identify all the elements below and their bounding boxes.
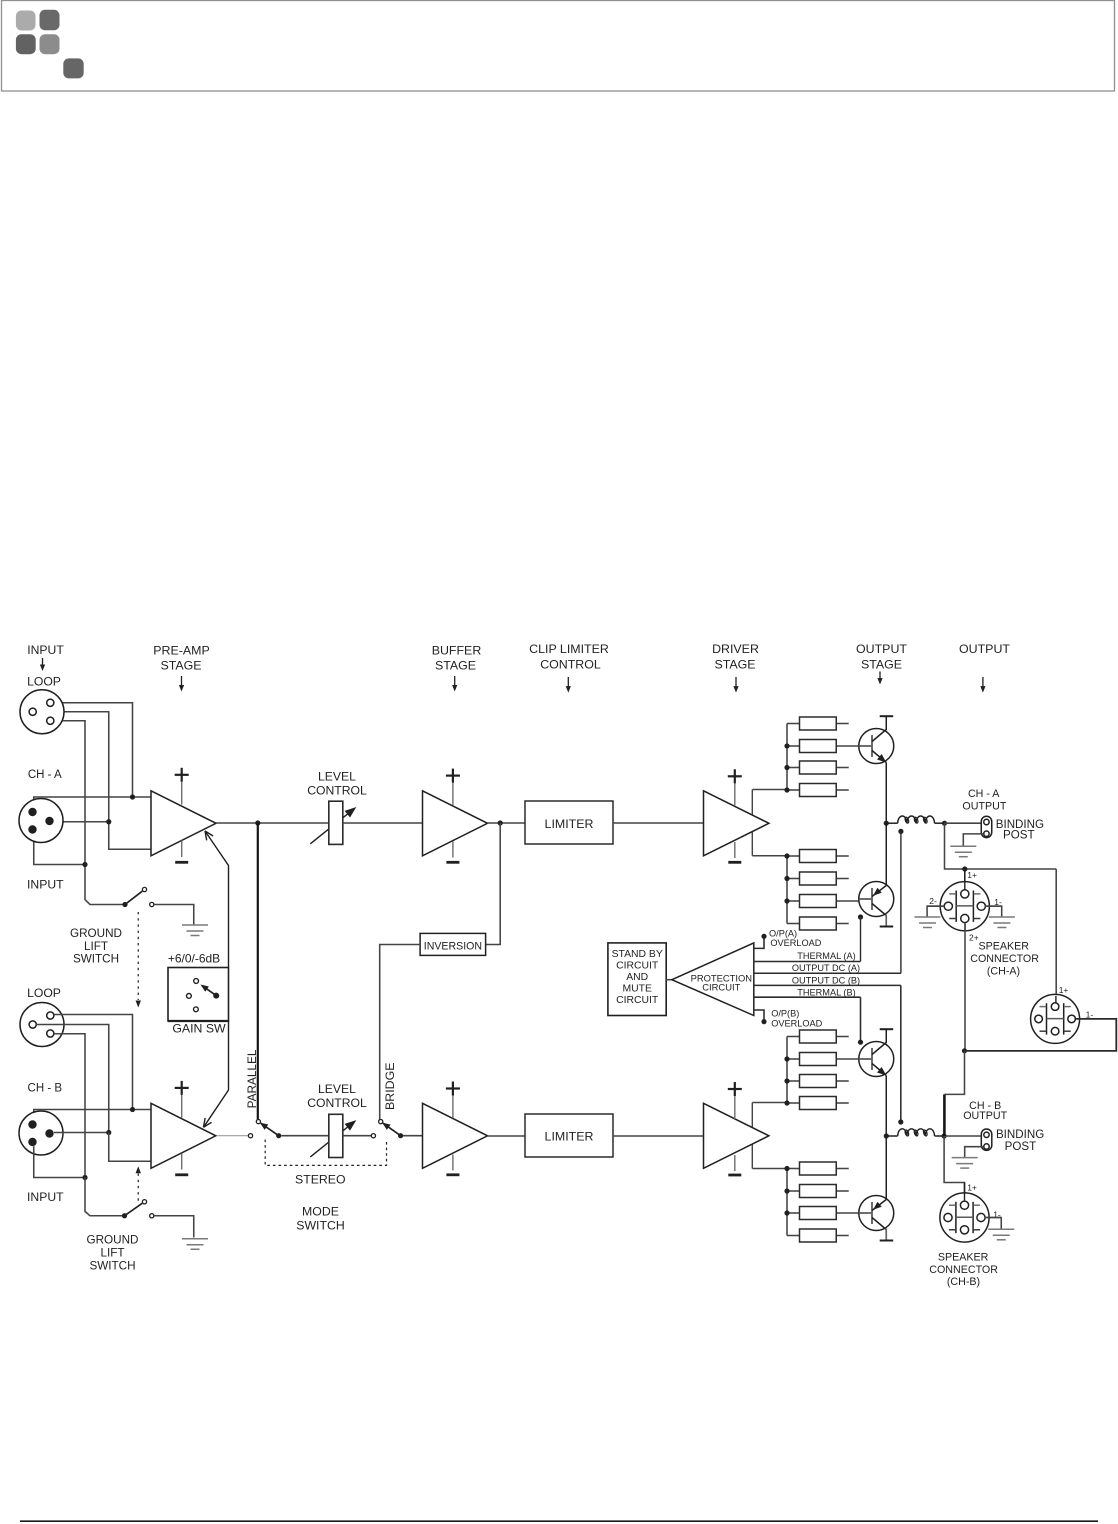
svg-text:BUFFER: BUFFER: [432, 644, 482, 658]
svg-text:OVERLOAD: OVERLOAD: [770, 938, 821, 948]
svg-text:(CH-B): (CH-B): [947, 1276, 980, 1288]
svg-text:BINDING: BINDING: [996, 1128, 1044, 1141]
svg-text:OUTPUT DC (B): OUTPUT DC (B): [792, 975, 860, 985]
svg-text:LEVEL: LEVEL: [318, 770, 356, 784]
svg-text:2-: 2-: [929, 896, 937, 906]
svg-text:CH - A: CH - A: [28, 769, 62, 781]
svg-text:CIRCUIT: CIRCUIT: [702, 982, 740, 993]
svg-text:OUTPUT: OUTPUT: [959, 642, 1010, 656]
svg-text:OUTPUT DC (A): OUTPUT DC (A): [792, 963, 860, 973]
svg-text:CONNECTOR: CONNECTOR: [929, 1264, 998, 1276]
svg-text:OUTPUT: OUTPUT: [962, 800, 1006, 812]
svg-text:CIRCUIT: CIRCUIT: [616, 961, 659, 972]
svg-text:INVERSION: INVERSION: [424, 940, 482, 952]
svg-text:MODE: MODE: [302, 1205, 339, 1219]
svg-text:1+: 1+: [967, 1183, 977, 1193]
svg-text:STAGE: STAGE: [714, 658, 755, 672]
svg-text:CIRCUIT: CIRCUIT: [616, 995, 659, 1006]
svg-text:STAND BY: STAND BY: [612, 949, 663, 960]
svg-text:AND: AND: [626, 972, 648, 983]
svg-text:2+: 2+: [969, 933, 979, 943]
svg-text:LIFT: LIFT: [84, 940, 108, 953]
svg-text:STEREO: STEREO: [295, 1172, 346, 1186]
svg-text:SPEAKER: SPEAKER: [979, 940, 1030, 952]
svg-text:INPUT: INPUT: [27, 643, 64, 657]
svg-text:LOOP: LOOP: [27, 675, 61, 689]
svg-text:INPUT: INPUT: [27, 878, 64, 892]
svg-text:GAIN SW: GAIN SW: [172, 1022, 226, 1036]
svg-text:LIMITER: LIMITER: [545, 817, 594, 831]
svg-text:1+: 1+: [967, 870, 977, 880]
svg-text:STAGE: STAGE: [861, 658, 902, 672]
svg-text:GROUND: GROUND: [70, 927, 122, 940]
svg-text:O/P(A): O/P(A): [769, 929, 797, 939]
svg-text:THERMAL (B): THERMAL (B): [797, 988, 855, 998]
svg-text:SWITCH: SWITCH: [73, 952, 119, 965]
svg-text:DRIVER: DRIVER: [712, 642, 759, 656]
svg-text:MUTE: MUTE: [622, 984, 652, 995]
svg-text:INPUT: INPUT: [27, 1190, 64, 1204]
svg-text:CONNECTOR: CONNECTOR: [970, 953, 1039, 965]
svg-text:POST: POST: [1005, 1140, 1037, 1153]
svg-text:CH - A: CH - A: [968, 788, 1000, 800]
svg-text:THERMAL (A): THERMAL (A): [797, 951, 855, 961]
svg-text:CONTROL: CONTROL: [540, 658, 601, 672]
svg-text:PARALLEL: PARALLEL: [245, 1049, 259, 1108]
svg-text:LIMITER: LIMITER: [545, 1130, 594, 1144]
svg-text:(CH-A): (CH-A): [987, 965, 1020, 977]
svg-text:STAGE: STAGE: [435, 659, 476, 673]
svg-text:CONTROL: CONTROL: [307, 784, 367, 798]
svg-text:LIFT: LIFT: [100, 1247, 124, 1260]
svg-text:CLIP LIMITER: CLIP LIMITER: [529, 642, 609, 656]
svg-text:SWITCH: SWITCH: [296, 1218, 345, 1232]
svg-text:SWITCH: SWITCH: [89, 1260, 135, 1273]
svg-text:OVERLOAD: OVERLOAD: [771, 1019, 822, 1029]
svg-text:SPEAKER: SPEAKER: [938, 1251, 989, 1263]
svg-text:OUTPUT: OUTPUT: [963, 1110, 1007, 1122]
svg-text:O/P(B): O/P(B): [771, 1009, 799, 1019]
svg-text:POST: POST: [1003, 829, 1035, 842]
svg-text:1-: 1-: [1086, 1009, 1094, 1019]
svg-text:BRIDGE: BRIDGE: [383, 1062, 397, 1110]
svg-text:LEVEL: LEVEL: [318, 1082, 356, 1096]
svg-text:OUTPUT: OUTPUT: [856, 642, 907, 656]
svg-text:STAGE: STAGE: [160, 659, 201, 673]
svg-text:PRE-AMP: PRE-AMP: [153, 644, 209, 658]
svg-text:CH - B: CH - B: [28, 1083, 63, 1095]
svg-text:LOOP: LOOP: [27, 986, 61, 1000]
svg-text:1+: 1+: [1059, 985, 1069, 995]
svg-text:GROUND: GROUND: [87, 1234, 139, 1247]
svg-text:+6/0/-6dB: +6/0/-6dB: [168, 951, 220, 965]
svg-text:CONTROL: CONTROL: [307, 1096, 367, 1110]
